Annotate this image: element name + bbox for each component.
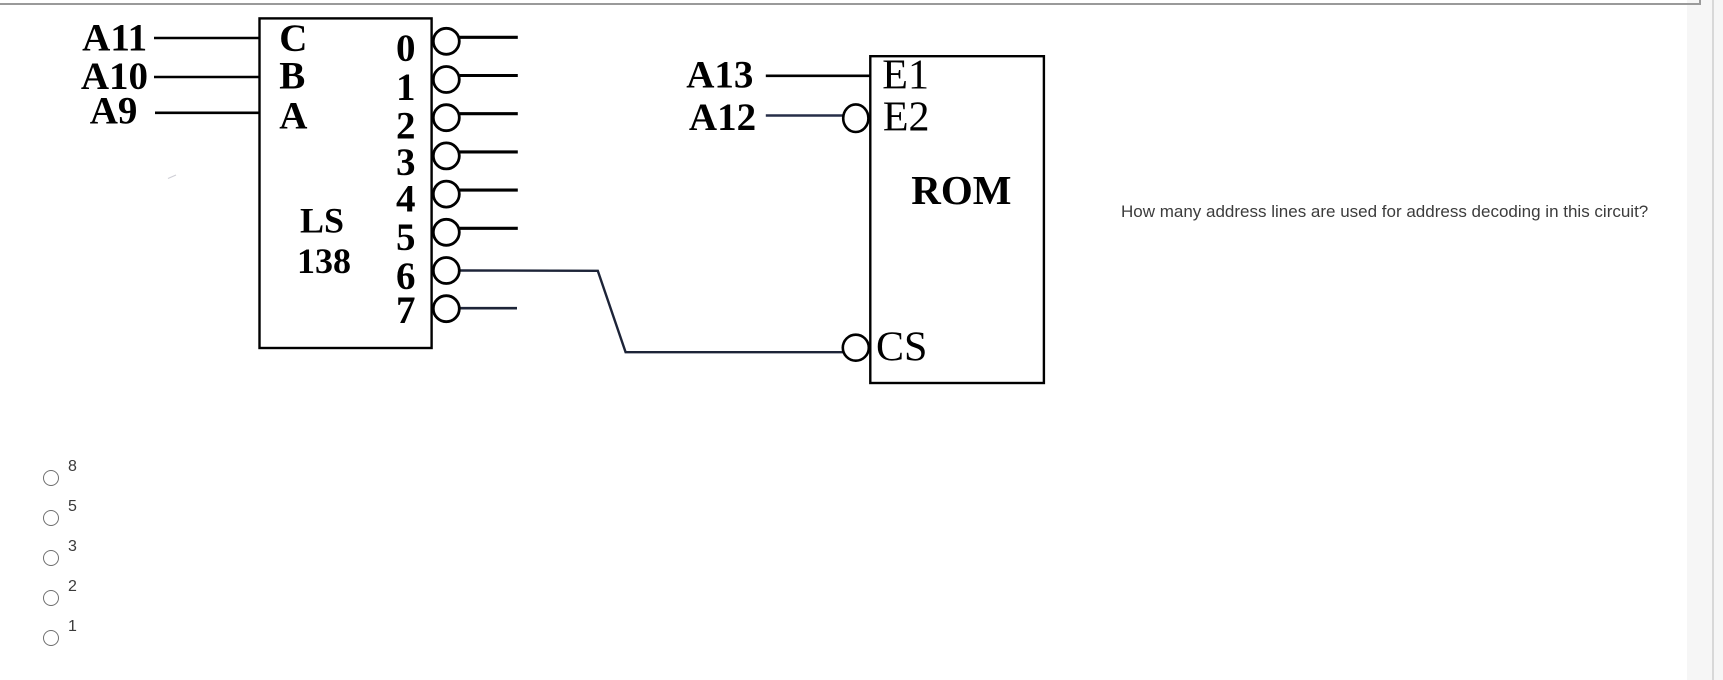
- output stub wire 7: [460, 307, 517, 310]
- wire A10 to pin B: [154, 76, 261, 79]
- wire A11 to pin C: [154, 37, 261, 40]
- svg-text:A9: A9: [90, 90, 138, 133]
- svg-text:A12: A12: [689, 96, 756, 139]
- svg-text:A13: A13: [686, 54, 753, 97]
- svg-text:B: B: [279, 55, 305, 98]
- faint artifact mark: [168, 175, 176, 179]
- ROM U2 body: [870, 56, 1044, 383]
- inversion bubble output 0: [433, 28, 459, 54]
- svg-text:4: 4: [396, 177, 416, 220]
- question text: [1121, 202, 1648, 222]
- svg-text:LS: LS: [300, 201, 344, 241]
- inversion bubble output 3: [433, 143, 459, 169]
- svg-text:ROM: ROM: [911, 167, 1011, 213]
- radio option 3: [43, 550, 59, 566]
- svg-text:1: 1: [396, 66, 416, 109]
- svg-text:CS: CS: [876, 324, 927, 370]
- inversion bubble E2: [843, 104, 868, 132]
- decoder U1 LS138 body: [260, 18, 432, 348]
- inversion bubble output 7: [433, 296, 459, 322]
- inversion bubble CS: [843, 335, 869, 361]
- wire A13 to E1: [766, 75, 870, 78]
- radio option 8: [43, 470, 59, 486]
- inversion bubble output 2: [433, 105, 459, 131]
- scrollbar divider line: [1712, 0, 1714, 680]
- svg-text:138: 138: [297, 241, 351, 281]
- scrollbar track right strip: [1687, 0, 1723, 680]
- inversion bubble output 6: [433, 258, 459, 284]
- output stub wire 3: [460, 150, 518, 153]
- svg-text:A: A: [279, 95, 307, 138]
- svg-text:5: 5: [396, 216, 416, 259]
- svg-text:E1: E1: [882, 52, 929, 98]
- svg-text:7: 7: [396, 289, 416, 332]
- radio option 1: [43, 630, 59, 646]
- net wire output6 to CS: [460, 271, 844, 353]
- radio option 2: [43, 590, 59, 606]
- output stub wire 1: [460, 74, 518, 77]
- output stub wire 2: [460, 112, 518, 115]
- wire A12 to E2: [766, 114, 844, 116]
- svg-text:0: 0: [396, 27, 416, 70]
- inversion bubble output 4: [433, 181, 459, 207]
- wire A9 to pin A: [155, 112, 261, 115]
- inversion bubble output 1: [433, 67, 459, 93]
- top-right corner border: [1699, 0, 1701, 5]
- radio option 5: [43, 510, 59, 526]
- inversion bubble output 5: [433, 219, 459, 245]
- svg-text:A11: A11: [82, 17, 147, 60]
- top header border line: [0, 3, 1700, 5]
- svg-text:E2: E2: [883, 95, 930, 141]
- circuit schematic: [0, 0, 1130, 420]
- output stub wire 0: [460, 36, 518, 39]
- output stub wire 5: [460, 227, 518, 230]
- output stub wire 4: [460, 189, 518, 192]
